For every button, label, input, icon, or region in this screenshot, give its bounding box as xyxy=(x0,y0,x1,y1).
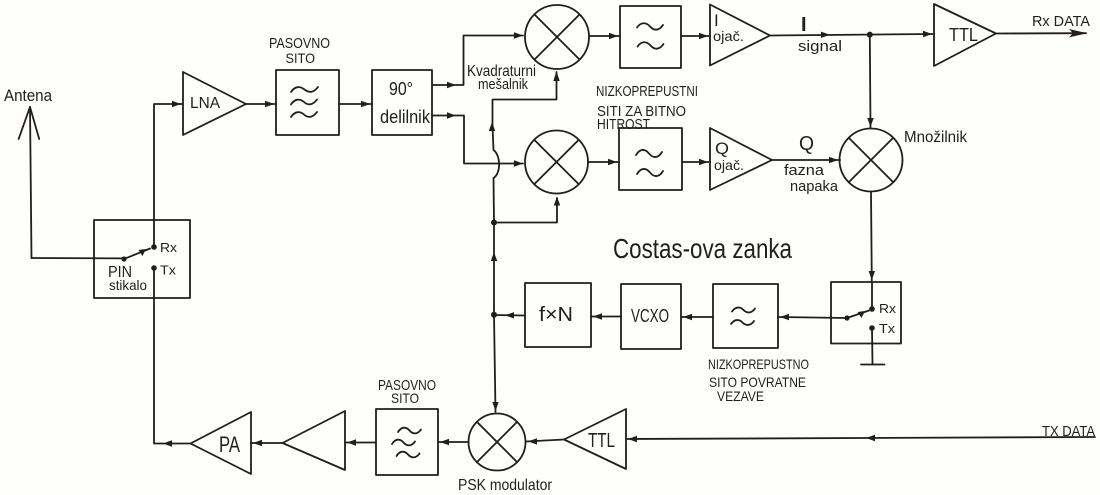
svg-text:stikalo: stikalo xyxy=(109,277,147,293)
op-amp Q ojac xyxy=(710,128,772,190)
wire antenna to PIN switch xyxy=(32,257,124,259)
multiplier M3 (Mnozilnik) xyxy=(840,129,903,192)
svg-text:VEZAVE: VEZAVE xyxy=(717,388,764,404)
mixer M2 (Q) xyxy=(525,131,588,194)
arrowhead into LNA xyxy=(172,101,181,107)
svg-text:napaka: napaka xyxy=(790,178,839,195)
arrowhead on divider bottom output xyxy=(447,112,456,118)
arrowhead Rx DATA xyxy=(1069,29,1087,37)
svg-text:Rx: Rx xyxy=(879,301,897,316)
arrowhead into FL4 xyxy=(780,314,789,320)
wire TTL to PSK modulator xyxy=(526,440,564,442)
svg-text:SITO: SITO xyxy=(391,390,419,406)
node junction I xyxy=(867,32,873,38)
svg-text:LNA: LNA xyxy=(190,95,220,112)
wire multiplier to loop switch xyxy=(870,192,873,283)
arrowhead into FL2 xyxy=(609,33,618,39)
arrowhead into PSK modulator xyxy=(492,402,498,411)
arrowhead into VCXO xyxy=(683,314,692,320)
TTL buffer U5 xyxy=(564,409,626,469)
wire S2 Tx to ground xyxy=(871,328,874,365)
loop switch box S2 xyxy=(831,282,901,344)
tilde marks FL3 xyxy=(636,150,663,176)
arrowhead into divider xyxy=(361,101,370,107)
svg-text:signal: signal xyxy=(798,38,842,55)
arrowhead on fxN output xyxy=(505,312,514,318)
svg-text:NIZKOPREPUSTNI: NIZKOPREPUSTNI xyxy=(596,83,698,100)
svg-text:Tx: Tx xyxy=(160,263,177,278)
arrowhead on divider top output xyxy=(447,82,456,88)
arrowhead into multiplier xyxy=(829,157,838,163)
antenna ANT xyxy=(19,107,40,258)
VCXO box U3 xyxy=(621,284,681,349)
svg-text:PSK modulator: PSK modulator xyxy=(458,477,553,494)
wire I signal to TTL xyxy=(770,34,934,36)
wire M1 to lowpass FL2 xyxy=(589,35,620,37)
wire Q fazna napaka to multiplier xyxy=(772,159,840,161)
wire LNA to bandpass filter xyxy=(246,103,276,105)
arrowhead into I mixer xyxy=(514,32,523,38)
wire PIN Rx to LNA input xyxy=(154,104,183,247)
wire driver to PA xyxy=(251,442,283,444)
svg-text:TX DATA: TX DATA xyxy=(1042,423,1095,440)
PIN switch box (PIN stikalo) xyxy=(94,220,190,298)
svg-text:VCXO: VCXO xyxy=(631,306,669,326)
svg-text:mešalnik: mešalnik xyxy=(478,76,528,93)
wire loop to I mixer bottom xyxy=(493,72,557,126)
svg-text:Antena: Antena xyxy=(4,86,52,105)
svg-text:Tx: Tx xyxy=(879,321,896,336)
arrowhead up on loop wire above hop xyxy=(489,122,495,131)
arrowhead into PA xyxy=(253,440,262,446)
arrowhead on TX wire xyxy=(866,435,875,441)
op-amp PA xyxy=(191,412,252,474)
wire S2 to loop lowpass FL4 xyxy=(778,317,847,318)
arrowhead into I mixer bottom xyxy=(553,71,559,81)
wire divider top output to I mixer xyxy=(432,36,523,86)
svg-text:Rx DATA: Rx DATA xyxy=(1032,13,1090,30)
arrowhead into fxN xyxy=(593,313,602,319)
arrowhead into I amp xyxy=(699,33,708,39)
svg-text:Množilnik: Množilnik xyxy=(904,129,968,146)
svg-text:TTL: TTL xyxy=(588,430,615,452)
arrowhead into bandpass filter xyxy=(265,101,274,107)
svg-text:ojač.: ojač. xyxy=(714,157,744,173)
node branch to Q mixer xyxy=(491,220,497,226)
arrowhead on I wire xyxy=(821,32,830,38)
wire fxN to loop node xyxy=(494,314,525,317)
wire loop node down to PSK modulator xyxy=(494,315,496,412)
arrowhead on PA output wire xyxy=(163,440,172,446)
op-amp I ojac xyxy=(710,5,770,66)
arrowhead into PSK modulator xyxy=(528,438,537,444)
arrowhead into multiplier top xyxy=(867,118,873,127)
arrowhead into TTL U2 xyxy=(923,31,932,37)
wire loop continues up with hop over divider wire xyxy=(493,126,500,223)
arrowhead into Q mixer xyxy=(514,160,523,166)
switch arm PIN xyxy=(121,244,156,271)
wire TTL to Rx DATA xyxy=(996,32,1086,34)
tilde marks FL1 xyxy=(291,87,318,117)
mixer M1 (I, Kvadraturni mesalnik) xyxy=(525,5,589,69)
lowpass filter FL2 xyxy=(620,6,681,68)
wire branch to Q mixer bottom xyxy=(494,198,557,223)
svg-text:PA: PA xyxy=(219,432,240,457)
fxN multiplier box U4 xyxy=(525,283,591,347)
TX DATA wire xyxy=(626,437,1095,439)
90 degree divider box U1 xyxy=(372,70,432,135)
svg-text:SITO: SITO xyxy=(286,50,316,66)
arrowhead into driver amp xyxy=(347,439,356,445)
mixer M4 (PSK modulator) xyxy=(469,414,526,471)
wire divider bottom output to Q mixer xyxy=(432,116,523,164)
svg-text:HITROST: HITROST xyxy=(597,116,650,133)
arrowhead into FL5 xyxy=(440,439,449,445)
svg-text:90°: 90° xyxy=(389,79,413,99)
svg-text:NIZKOPREPUSTNO: NIZKOPREPUSTNO xyxy=(708,356,809,372)
tilde marks FL4 xyxy=(731,308,755,325)
svg-text:ojač.: ojač. xyxy=(713,28,744,44)
svg-text:I: I xyxy=(801,14,807,36)
svg-text:f×N: f×N xyxy=(539,304,573,326)
wire FL2 to I amp xyxy=(681,35,710,37)
svg-text:TTL: TTL xyxy=(949,25,978,45)
wire PSK modulator to bandpass FL5 xyxy=(438,441,469,443)
wire FL1 to 90 deg divider xyxy=(339,103,372,105)
tilde marks FL2 xyxy=(637,23,664,48)
wire I junction down to multiplier xyxy=(869,35,872,128)
svg-text:delilnik: delilnik xyxy=(380,107,431,127)
wire FL5 to driver amp xyxy=(345,442,376,444)
op-amp driver A2 xyxy=(283,411,346,470)
wire FL3 to Q amp xyxy=(682,161,710,163)
ground xyxy=(861,364,885,366)
arrowhead into loop switch box xyxy=(869,271,875,280)
wire FL4 to VCXO xyxy=(681,316,713,318)
lowpass filter FL3 xyxy=(619,128,682,190)
wire VCXO to fxN xyxy=(591,316,621,318)
loop lowpass filter FL4 xyxy=(713,284,778,348)
switch arm S2 xyxy=(844,282,874,331)
TTL buffer U2 xyxy=(934,4,996,66)
wire loop node up to quadrature mixers xyxy=(493,223,495,315)
wire PA to PIN switch Tx xyxy=(154,268,191,444)
tilde marks FL5 xyxy=(392,428,421,458)
svg-text:Q: Q xyxy=(715,139,729,158)
svg-text:Q: Q xyxy=(799,133,814,155)
arrowhead up on loop wire xyxy=(491,252,497,261)
svg-text:fazna: fazna xyxy=(784,162,825,179)
bandpass filter FL5 (PASOVNO SITO) xyxy=(376,409,438,475)
arrowhead into FL3 xyxy=(608,159,617,165)
wire M2 to lowpass FL3 xyxy=(588,161,619,163)
svg-text:Costas-ova zanka: Costas-ova zanka xyxy=(613,233,792,264)
arrowhead into Q amp xyxy=(699,159,708,165)
node loop junction xyxy=(491,312,497,318)
svg-text:Rx: Rx xyxy=(160,240,178,255)
arrowhead into Q mixer bottom xyxy=(554,197,560,206)
bandpass filter FL1 (PASOVNO SITO) xyxy=(276,70,339,135)
op-amp LNA xyxy=(183,72,246,135)
arrowhead into TTL U5 xyxy=(628,436,637,442)
